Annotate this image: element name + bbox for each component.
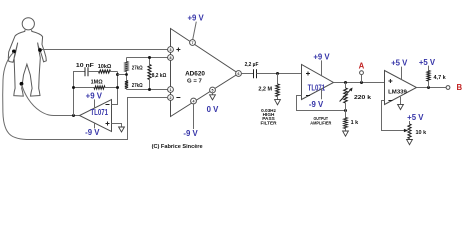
- wire left-leg electrode to TL071 U2 output node: [22, 85, 74, 116]
- resistor 10k in U2 feedback: [88, 64, 118, 73]
- svg-text:LM339: LM339: [388, 90, 407, 96]
- svg-text:+5 V: +5 V: [419, 58, 436, 67]
- resistor 27k upper: [125, 58, 143, 72]
- svg-text:+9 V: +9 V: [313, 53, 330, 62]
- wire U2 output to node: [74, 115, 80, 117]
- node 8,2k top: [148, 56, 151, 59]
- ground below 2,2M: [275, 100, 281, 105]
- svg-text:2,2 µF: 2,2 µF: [245, 62, 259, 68]
- svg-text:6: 6: [238, 72, 240, 76]
- svg-text:G = 7: G = 7: [187, 78, 202, 84]
- wire left-arm electrode to AD620 pin 2: [3, 52, 167, 139]
- svg-text:0 V: 0 V: [207, 105, 220, 114]
- wire U4 inverting input to 10k wiper: [382, 101, 405, 131]
- node 8,2k bottom: [148, 88, 151, 91]
- svg-text:8: 8: [170, 56, 172, 60]
- svg-text:AD620: AD620: [185, 70, 205, 77]
- wire gain network top to pin 8: [127, 57, 168, 59]
- svg-text:+5 V: +5 V: [391, 59, 408, 68]
- node feedback left: [72, 86, 75, 89]
- svg-text:10kΩ: 10kΩ: [98, 64, 112, 70]
- svg-text:2: 2: [170, 96, 172, 100]
- wire U4 output: [417, 87, 447, 89]
- svg-text:7: 7: [192, 41, 194, 45]
- op-amp U3 TL071 output amplifier: [302, 65, 334, 100]
- svg-text:10 nF: 10 nF: [76, 63, 95, 69]
- svg-text:1MΩ: 1MΩ: [91, 80, 104, 86]
- node feedback bottom: [344, 109, 347, 112]
- svg-text:220 k: 220 k: [354, 95, 372, 101]
- svg-text:10 k: 10 k: [416, 130, 428, 136]
- svg-text:4: 4: [193, 99, 195, 103]
- ground below 10k: [407, 140, 413, 145]
- svg-text:3: 3: [170, 48, 172, 52]
- +9V supply U1 pin 7: [187, 14, 204, 40]
- AD620 pin 3: [168, 47, 174, 53]
- svg-text:-9 V: -9 V: [309, 100, 324, 109]
- node U4 output pull-up: [427, 86, 430, 89]
- svg-text:(C) Fabrice Sincère: (C) Fabrice Sincère: [152, 144, 203, 150]
- resistor 1M in U2 feedback: [74, 80, 118, 90]
- +9V supply U3: [313, 53, 330, 76]
- svg-text:+5 V: +5 V: [407, 113, 424, 122]
- wire U2 output left rail: [74, 72, 85, 116]
- wire U3 output: [334, 82, 385, 84]
- wire cap to U3 non-inverting input: [257, 73, 302, 75]
- AD620 pin 7: [190, 40, 196, 46]
- wire 27k midpoint: [126, 72, 128, 81]
- resistor 4,7k pull-up: [419, 58, 447, 88]
- svg-text:B: B: [456, 83, 462, 92]
- svg-text:+9 V: +9 V: [86, 92, 103, 101]
- +9V supply U2: [86, 92, 103, 109]
- svg-text:+9 V: +9 V: [187, 14, 204, 23]
- capacitor 10 nF: [76, 63, 95, 76]
- AD620 pin 1: [168, 87, 174, 93]
- wire midpoint of gain resistors to U2 network: [118, 74, 127, 76]
- op-amp U2 TL071 (driven-leg driver): [80, 100, 112, 132]
- resistor 2,2M: [258, 74, 279, 100]
- high pass filter note: [260, 108, 277, 126]
- patient body outline: [8, 18, 46, 96]
- wire U3 inverting input feedback loop: [297, 96, 346, 111]
- in-amp U1 AD620: [171, 29, 239, 117]
- svg-text:TL071: TL071: [90, 108, 108, 117]
- node midpoint tap: [116, 73, 119, 76]
- terminal A: [359, 62, 365, 83]
- +5V supply U4: [391, 59, 408, 80]
- wire U2 inverting input feedback rail: [112, 72, 118, 105]
- electrode right arm: [38, 48, 42, 52]
- ground at U1 pin 5: [210, 93, 216, 100]
- capacitor 2,2 uF: [245, 62, 259, 78]
- ground at U2 non-inverting input: [112, 124, 125, 133]
- -9V supply U2: [85, 123, 100, 137]
- resistor 27k lower: [125, 81, 143, 90]
- node U3 output: [344, 81, 347, 84]
- electrode left leg: [20, 82, 24, 86]
- svg-text:2,2 M: 2,2 M: [258, 86, 272, 92]
- ground at U4: [398, 97, 404, 110]
- svg-text:-9 V: -9 V: [183, 129, 198, 138]
- AD620 pin 4: [191, 98, 197, 104]
- svg-text:8,2 kΩ: 8,2 kΩ: [152, 73, 167, 79]
- wire gain network bottom to pin 1: [127, 89, 168, 91]
- output amplifier note: [310, 116, 332, 126]
- svg-text:27kΩ: 27kΩ: [132, 65, 143, 71]
- potentiometer 10k threshold: [407, 113, 427, 139]
- svg-text:A: A: [359, 62, 365, 71]
- terminal B: [446, 83, 462, 92]
- AD620 pin 8: [168, 55, 174, 61]
- svg-text:27kΩ: 27kΩ: [132, 83, 143, 89]
- node HPF junction: [276, 72, 279, 75]
- svg-text:FILTER: FILTER: [260, 120, 277, 125]
- resistor 1k: [344, 111, 359, 132]
- svg-text:4,7 k: 4,7 k: [434, 75, 447, 81]
- AD620 pin 5: [210, 87, 216, 93]
- wire right-arm electrode to AD620 pin 3: [42, 49, 168, 51]
- AD620 pin 2: [168, 95, 174, 101]
- potentiometer 220k: [340, 83, 373, 111]
- svg-text:5: 5: [212, 88, 214, 92]
- resistor 8,2k gain: [148, 58, 167, 90]
- svg-text:-9 V: -9 V: [85, 128, 100, 137]
- node U2 output junction: [72, 114, 75, 117]
- comparator U4 LM339: [385, 71, 417, 105]
- ground below 1k: [343, 131, 349, 136]
- -9V supply U3: [309, 89, 324, 109]
- AD620 pin 6: [236, 71, 242, 77]
- -9V supply U1 pin 4: [183, 104, 198, 138]
- svg-text:AMPLIFIER: AMPLIFIER: [310, 121, 332, 126]
- node terminal A junction: [360, 81, 363, 84]
- node feedback right: [116, 86, 119, 89]
- wire AD620 pin 6 to coupling cap: [241, 73, 253, 75]
- svg-text:1 k: 1 k: [351, 120, 360, 126]
- svg-text:TL071: TL071: [308, 84, 326, 93]
- svg-text:1: 1: [170, 88, 172, 92]
- electrode left arm: [12, 50, 16, 54]
